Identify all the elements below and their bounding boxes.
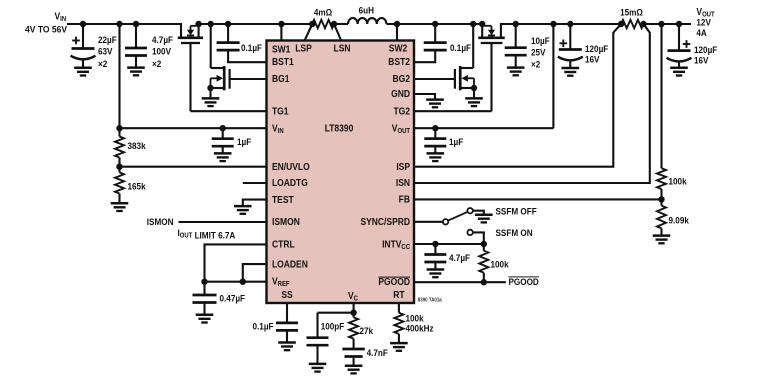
svg-text:SW1: SW1	[272, 44, 290, 55]
svg-text:PGOOD: PGOOD	[509, 276, 540, 287]
svg-text:4.7µF: 4.7µF	[152, 35, 174, 46]
svg-text:×2: ×2	[531, 59, 540, 70]
svg-text:BST2: BST2	[388, 57, 410, 68]
svg-text:ISP: ISP	[396, 161, 410, 172]
svg-text:GND: GND	[391, 89, 410, 100]
svg-text:ISN: ISN	[396, 178, 410, 189]
svg-text:SS: SS	[281, 290, 292, 301]
svg-text:LT8390: LT8390	[325, 123, 354, 134]
svg-text:400kHz: 400kHz	[406, 323, 435, 334]
svg-text:10µF: 10µF	[531, 36, 550, 47]
svg-text:0.47µF: 0.47µF	[220, 293, 246, 304]
svg-text:×2: ×2	[152, 59, 161, 70]
svg-text:100k: 100k	[669, 176, 687, 187]
svg-text:22µF: 22µF	[98, 35, 117, 46]
svg-text:16V: 16V	[694, 55, 709, 66]
svg-text:4A: 4A	[696, 28, 707, 39]
svg-text:SW2: SW2	[389, 43, 407, 54]
svg-text:12V: 12V	[696, 17, 711, 28]
svg-text:100k: 100k	[491, 259, 509, 270]
svg-text:4.7nF: 4.7nF	[367, 348, 389, 359]
svg-text:ISMON: ISMON	[147, 217, 174, 228]
svg-text:27k: 27k	[360, 326, 374, 337]
svg-text:120µF: 120µF	[694, 45, 718, 56]
svg-text:RT: RT	[393, 289, 405, 300]
svg-text:SYNC/SPRD: SYNC/SPRD	[360, 217, 410, 228]
svg-text:ISMON: ISMON	[272, 217, 300, 228]
svg-text:VIN: VIN	[55, 11, 67, 23]
svg-text:9.09k: 9.09k	[669, 215, 689, 226]
svg-text:LOADTG: LOADTG	[272, 177, 308, 188]
svg-text:0.1µF: 0.1µF	[450, 43, 472, 54]
svg-text:SSFM ON: SSFM ON	[496, 228, 533, 239]
svg-text:0.1µF: 0.1µF	[241, 43, 263, 54]
svg-text:16V: 16V	[585, 54, 600, 65]
svg-text:BG1: BG1	[272, 73, 289, 84]
svg-text:BST1: BST1	[272, 57, 294, 68]
svg-text:BG2: BG2	[393, 73, 410, 84]
svg-text:1µF: 1µF	[449, 137, 464, 148]
svg-text:25V: 25V	[531, 47, 546, 58]
svg-text:TEST: TEST	[272, 194, 294, 205]
svg-text:LSN: LSN	[334, 43, 351, 54]
svg-text:1µF: 1µF	[237, 137, 252, 148]
svg-text:4mΩ: 4mΩ	[314, 7, 332, 18]
svg-text:0.1µF: 0.1µF	[253, 321, 275, 332]
svg-text:PGOOD: PGOOD	[378, 277, 410, 288]
svg-text:CTRL: CTRL	[272, 239, 295, 250]
svg-text:4.7µF: 4.7µF	[449, 253, 471, 264]
svg-text:×2: ×2	[98, 59, 107, 70]
svg-text:6uH: 6uH	[359, 5, 374, 16]
svg-text:383k: 383k	[128, 141, 146, 152]
svg-text:8390 TA01a: 8390 TA01a	[418, 297, 442, 303]
svg-text:100pF: 100pF	[321, 321, 345, 332]
svg-text:120µF: 120µF	[585, 44, 609, 55]
svg-text:LOADEN: LOADEN	[272, 259, 308, 270]
svg-text:FB: FB	[399, 194, 411, 205]
svg-text:100V: 100V	[152, 46, 171, 57]
svg-text:4V TO 56V: 4V TO 56V	[25, 24, 67, 34]
svg-text:LSP: LSP	[295, 43, 312, 54]
svg-text:TG2: TG2	[393, 106, 410, 117]
svg-text:EN/UVLO: EN/UVLO	[272, 161, 310, 172]
svg-text:TG1: TG1	[272, 106, 289, 117]
svg-text:IOUT LIMIT 6.7A: IOUT LIMIT 6.7A	[178, 227, 236, 240]
svg-text:SSFM OFF: SSFM OFF	[496, 206, 538, 217]
svg-text:165k: 165k	[128, 181, 146, 192]
svg-text:63V: 63V	[98, 46, 113, 57]
svg-text:15mΩ: 15mΩ	[620, 7, 643, 18]
